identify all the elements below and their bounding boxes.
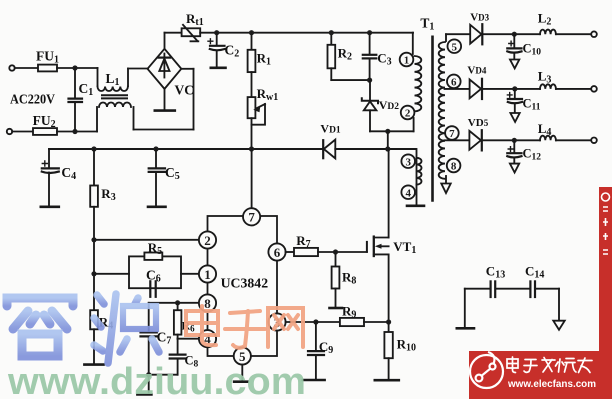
pin 3 circle xyxy=(268,313,285,330)
wire L3 to output xyxy=(556,88,591,90)
svg-text:4: 4 xyxy=(405,187,411,199)
node R10 junction xyxy=(386,319,391,324)
diode VD3 xyxy=(470,24,482,44)
output terminal 3 xyxy=(591,138,597,144)
svg-text:6: 6 xyxy=(451,77,457,89)
wire pin2 xyxy=(94,239,199,241)
transformer T1 primary 3-4 drop xyxy=(416,149,418,205)
capacitor C2 electrolytic xyxy=(208,33,226,68)
wire pin8 xyxy=(149,302,199,304)
node B junction xyxy=(72,129,77,134)
transformer T1 core xyxy=(431,37,434,201)
resistor R8 xyxy=(330,252,343,308)
ground bar pin4 xyxy=(407,205,424,208)
wire VD4 to C11 to L3 xyxy=(482,88,540,90)
zener diode VD2 xyxy=(362,80,378,131)
capacitor C4 electrolytic xyxy=(41,149,59,207)
resistor R9 xyxy=(316,318,389,326)
wire pin6 stub xyxy=(286,251,294,253)
potentiometer Rw1 xyxy=(248,97,265,149)
wire pin2 drop xyxy=(413,118,415,131)
input terminal bottom xyxy=(7,129,12,134)
wire FU1 to node A xyxy=(57,67,98,69)
wire VD3 to C10 to L2 xyxy=(482,33,540,35)
node C12 junction xyxy=(512,138,517,143)
svg-text:VC: VC xyxy=(175,83,195,98)
pin 6 circle xyxy=(268,243,285,260)
capacitor C8 xyxy=(149,339,186,375)
mid rail right segment xyxy=(335,148,416,150)
pin 2 circle xyxy=(199,231,216,248)
transformer T1 pin5 circle xyxy=(448,39,462,53)
watermark blue char rong xyxy=(7,283,73,356)
transformer T1 pin6 circle xyxy=(447,75,461,89)
wire pin5 ground xyxy=(234,365,247,382)
inductor L4 xyxy=(540,136,556,141)
wire pin7 to VD5 xyxy=(445,139,470,141)
svg-text:UC3842: UC3842 xyxy=(221,276,269,291)
capacitor C10 electrolytic xyxy=(507,34,521,68)
inductor L3 xyxy=(540,84,556,89)
capacitor C12 electrolytic xyxy=(507,140,521,172)
svg-text:7: 7 xyxy=(248,210,255,225)
node C10 junction xyxy=(512,32,517,37)
transformer T1 pin3 circle xyxy=(401,154,415,168)
diode VD4 xyxy=(470,79,482,99)
bridge rectifier VC diamond xyxy=(148,49,182,89)
red banner bottom block xyxy=(469,351,612,399)
svg-text:8: 8 xyxy=(204,296,211,311)
wire pin4 xyxy=(178,338,199,340)
banner strip icon xyxy=(602,193,610,254)
transformer T1 pin7 circle xyxy=(445,126,459,140)
fuse FU2 xyxy=(33,128,57,135)
wire L2 to output xyxy=(556,33,591,35)
banner logo xyxy=(470,352,503,388)
bridge negative stem and bar xyxy=(155,89,175,111)
node A junction xyxy=(72,65,77,70)
fuse FU1 xyxy=(38,65,57,72)
wire terminal to FU1 xyxy=(15,67,38,69)
resistor R5 xyxy=(144,253,162,260)
node C3 top junction xyxy=(367,30,372,35)
wire riser to Rt1 xyxy=(165,32,182,34)
watermark orange char zi xyxy=(225,311,265,348)
node R3 rail junction xyxy=(91,146,96,151)
transformer T1 primary 3-4 winding xyxy=(417,158,422,185)
transformer T1 pin2 circle xyxy=(401,106,415,120)
watermark orange char wang xyxy=(268,308,303,347)
pin 8 circle xyxy=(199,294,216,311)
node C7 C8 ground junction xyxy=(146,372,151,377)
svg-text:8: 8 xyxy=(451,161,457,173)
resistor R1 xyxy=(248,33,256,97)
capacitor C5 xyxy=(148,149,166,207)
transformer T1 pin1 circle xyxy=(400,53,414,67)
svg-text:5: 5 xyxy=(452,41,458,53)
inductor L2 xyxy=(540,30,556,35)
wire pin5 to VD3 xyxy=(446,34,470,41)
node gate R8 junction xyxy=(333,249,338,254)
capacitor C7 xyxy=(137,303,156,395)
wire bridge top vertex riser xyxy=(164,33,166,49)
node pin1 junction xyxy=(91,271,96,276)
wire L4 to output xyxy=(556,139,591,141)
diode VD5 xyxy=(469,130,481,150)
capacitor C3 xyxy=(363,33,377,80)
thermistor Rt1 xyxy=(182,25,201,42)
output terminal 2 xyxy=(591,86,597,92)
capacitor C9 xyxy=(303,322,325,380)
pin 7 circle xyxy=(243,208,260,225)
svg-text:6: 6 xyxy=(274,245,281,260)
choke L1 top winding xyxy=(98,68,149,91)
capacitor C11 electrolytic xyxy=(507,89,522,122)
choke L1 core xyxy=(102,95,127,98)
resistor R7 xyxy=(294,248,367,256)
svg-text:VD4: VD4 xyxy=(467,65,486,77)
wire pin1 right xyxy=(181,273,199,275)
pin 5 circle xyxy=(234,347,251,364)
resistor R4 xyxy=(84,310,103,364)
node R2 top junction xyxy=(329,30,334,35)
svg-text:2: 2 xyxy=(204,233,211,248)
resistor R6 xyxy=(174,303,182,339)
diode VD1 xyxy=(323,140,335,159)
watermark orange char dian xyxy=(186,306,218,345)
wire L1 to bridge right vertex xyxy=(134,69,194,130)
resistor R10 xyxy=(375,322,399,380)
node drain rail junction xyxy=(385,146,390,151)
transformer T1 primary 1-2 winding xyxy=(415,56,422,111)
wire pin6 to VD4 xyxy=(445,88,470,90)
top rail xyxy=(200,32,413,34)
wire junction down to rail xyxy=(387,131,389,149)
wire VT1 source drop xyxy=(388,254,390,322)
node pin2 junction xyxy=(91,237,96,242)
svg-text:AC220V: AC220V xyxy=(10,93,55,108)
transformer T1 pin8 circle xyxy=(447,159,461,173)
svg-text:VD3: VD3 xyxy=(470,12,489,24)
red banner right strip xyxy=(599,187,612,351)
svg-text:www.elecfans.com: www.elecfans.com xyxy=(507,379,596,390)
wire VD5 to C12 to L4 xyxy=(482,139,540,141)
transformer T1 secondary winding xyxy=(439,42,445,179)
transformer T1 primary 1-2 riser xyxy=(412,33,414,54)
capacitor C1 xyxy=(69,68,83,132)
node pin7 rail junction xyxy=(249,146,254,151)
node C5 rail junction xyxy=(153,146,158,151)
wire VD2 to pin2 riser xyxy=(370,130,414,132)
node R2 C3 junction xyxy=(367,78,372,83)
node R1 top junction xyxy=(249,30,254,35)
mid rail left segment xyxy=(49,148,323,150)
capacitor C13 C14 network xyxy=(457,281,565,329)
IC UC3842 box xyxy=(208,216,278,356)
wire VT1 drain riser xyxy=(388,149,390,238)
banner text dianzifashaoyou xyxy=(507,357,592,373)
input terminal top xyxy=(9,65,14,70)
R5 C6 parallel frame xyxy=(129,256,181,288)
svg-text:3: 3 xyxy=(405,156,411,168)
wire pin7 riser xyxy=(251,149,253,208)
MOSFET VT1 xyxy=(367,237,389,256)
wire pin3 xyxy=(286,321,316,323)
bridge VC inner diode xyxy=(159,54,171,78)
node R6 pin8 junction xyxy=(175,300,180,305)
transformer T1 pin4 circle xyxy=(401,185,415,199)
wire pin8 ground arrow xyxy=(441,176,450,193)
labels group xyxy=(10,11,551,370)
pin 4 circle xyxy=(199,330,216,347)
watermark blue char yuan xyxy=(94,293,166,363)
resistor R2 xyxy=(328,33,370,80)
svg-text:2: 2 xyxy=(405,108,411,120)
svg-text:7: 7 xyxy=(449,128,455,140)
node C9 junction xyxy=(313,319,318,324)
svg-text:1: 1 xyxy=(204,267,211,282)
wire terminal to FU2 xyxy=(12,131,33,133)
svg-text:www.dziuu.com: www.dziuu.com xyxy=(7,361,306,399)
resistor R3 xyxy=(90,149,98,310)
pin 1 circle xyxy=(199,265,216,282)
choke L1 bottom winding xyxy=(97,103,134,132)
wire pin1 left xyxy=(94,273,129,275)
output terminal 1 xyxy=(591,31,597,37)
capacitor C6 xyxy=(150,281,155,297)
node C11 junction xyxy=(512,86,517,91)
node C2 top junction xyxy=(214,30,219,35)
svg-text:1: 1 xyxy=(404,55,410,67)
node VD2 line junction xyxy=(385,129,390,134)
svg-text:VD5: VD5 xyxy=(468,117,489,129)
wire FU2 to node B xyxy=(57,131,97,133)
